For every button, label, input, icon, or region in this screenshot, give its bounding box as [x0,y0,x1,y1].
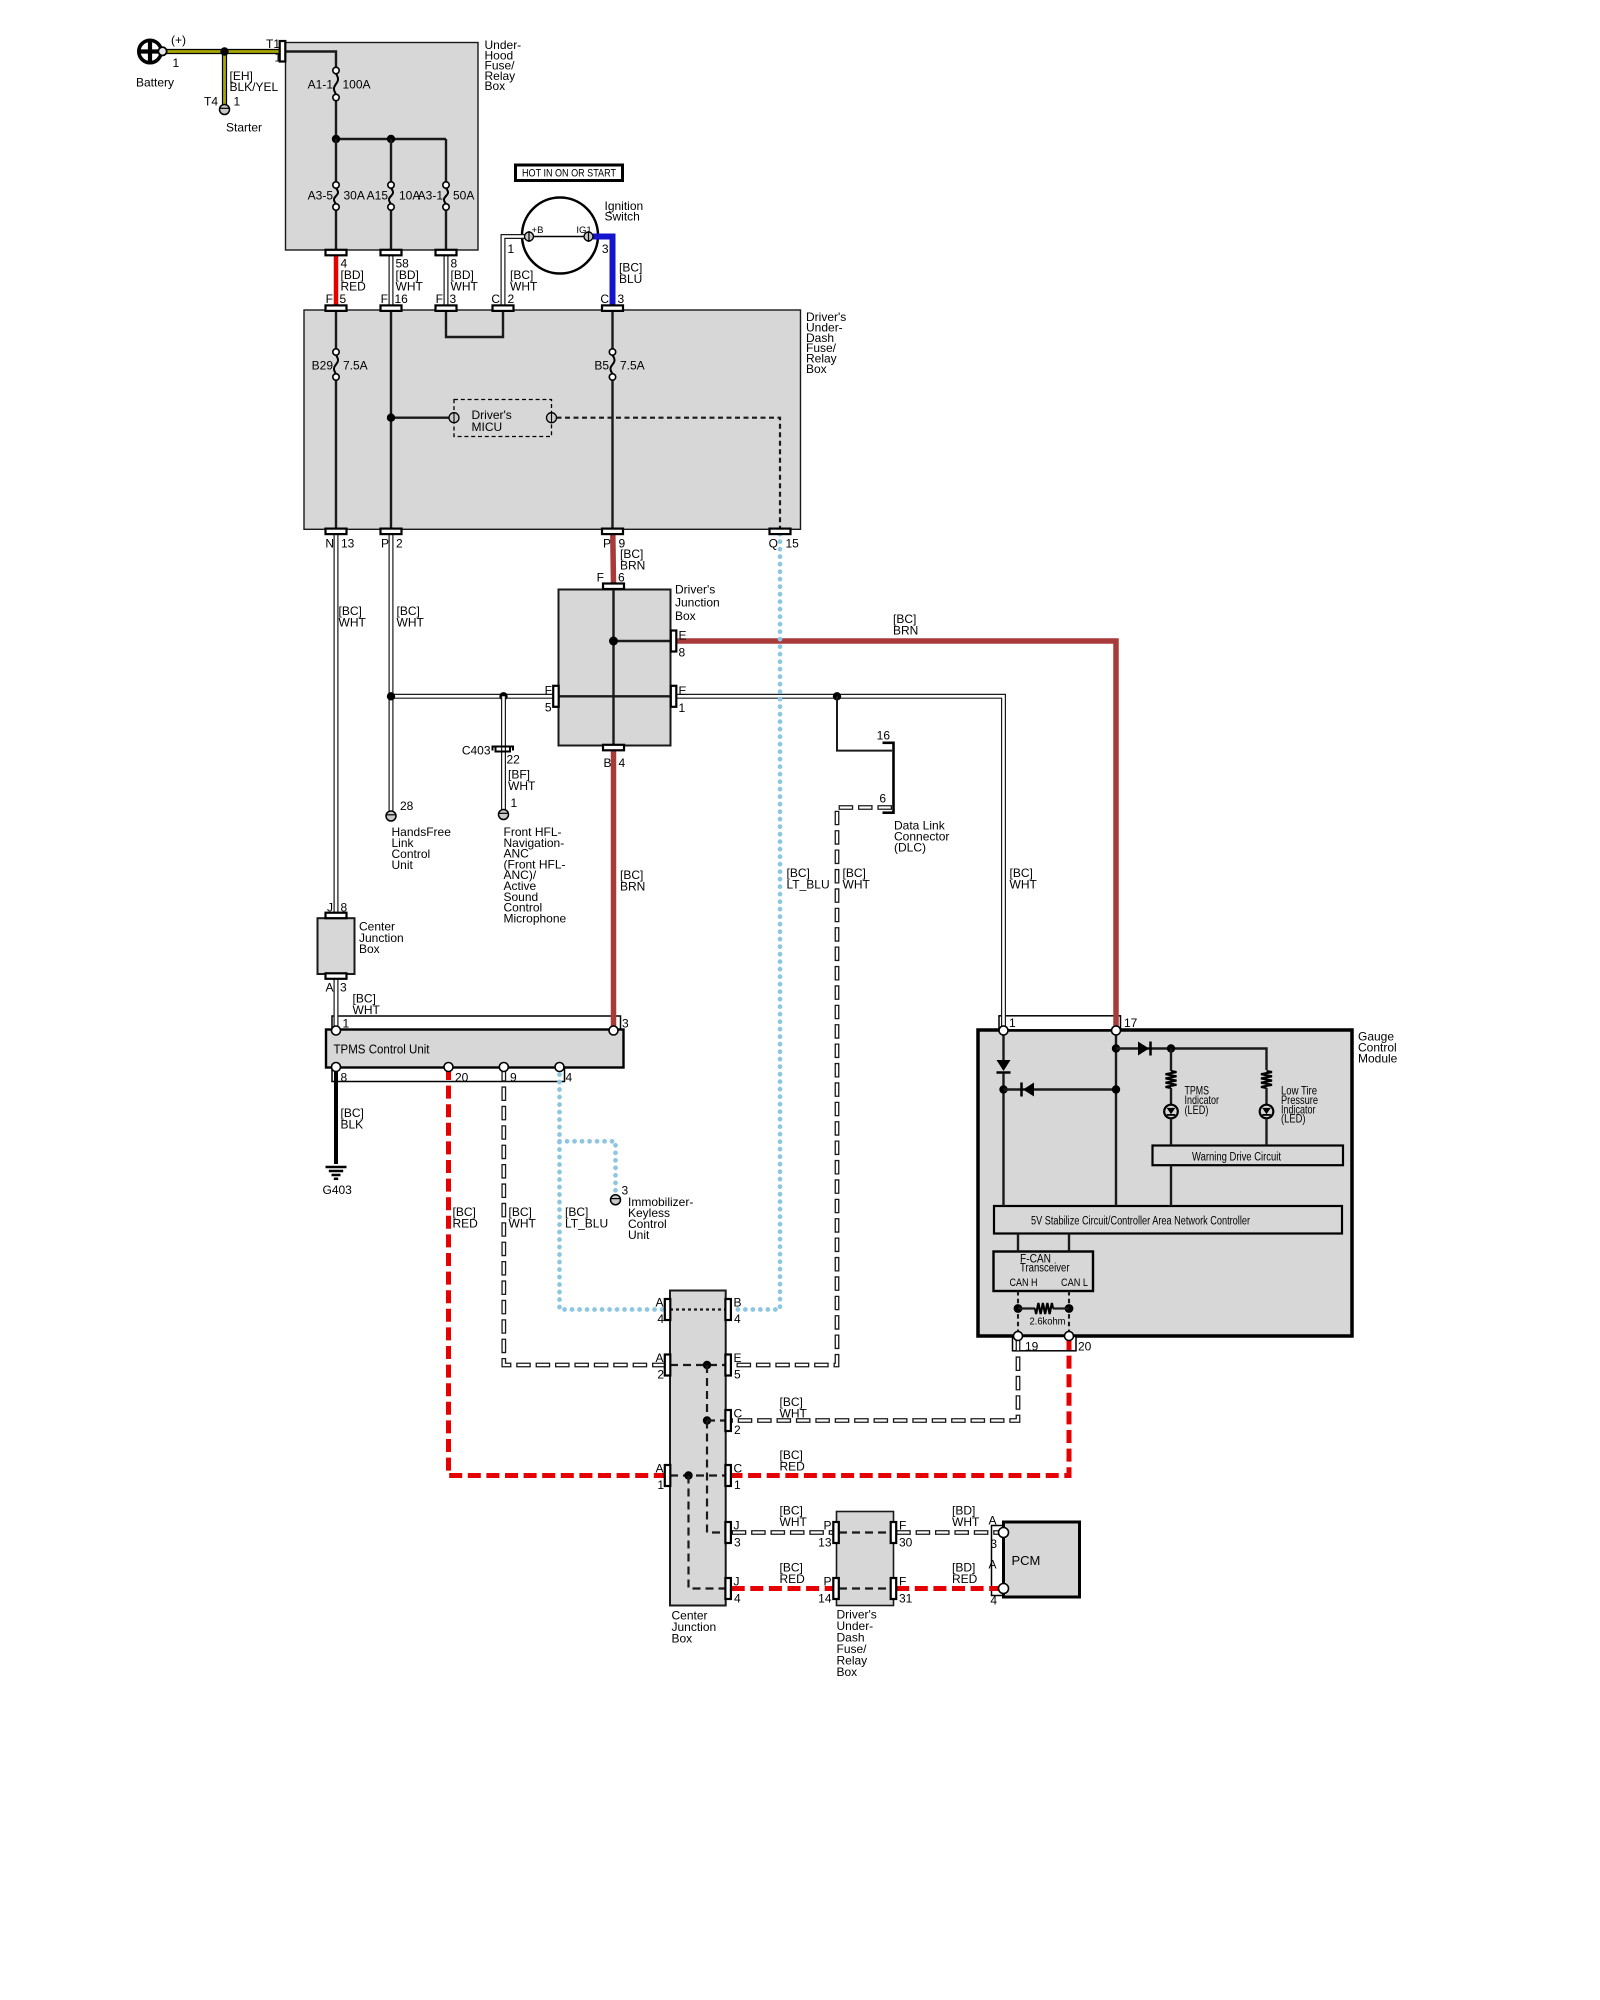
svg-text:A15: A15 [367,189,389,203]
svg-text:Box: Box [675,609,696,623]
svg-text:1: 1 [1009,1016,1016,1030]
connector F30 [891,1519,913,1550]
wire TPMS pin 8 to G403 [BC] BLK [334,1067,338,1164]
fuse A3-1 50A [418,182,475,210]
svg-text:4: 4 [619,756,626,770]
svg-text:50A: 50A [453,189,474,203]
label [BD] WHT (8) [451,268,479,294]
connector J4 (lower CJB) [725,1575,741,1606]
svg-text:4: 4 [734,1592,741,1606]
svg-text:Module: Module [1358,1052,1398,1066]
svg-text:(LED): (LED) [1281,1112,1306,1126]
wire P13 to F30 internal (dashed) [839,1531,891,1533]
svg-text:2: 2 [734,1423,741,1437]
label [BC] WHT (gauge pin1 wire) [1010,866,1038,892]
wire warning block to 5V block [1170,1165,1172,1206]
label [BC] BLK [341,1106,364,1132]
svg-text:Unit: Unit [628,1228,650,1242]
ignition switch contact [534,199,644,237]
svg-text:16: 16 [395,292,409,306]
svg-text:Transceiver: Transceiver [1020,1263,1070,1275]
label [BC] LT_BLU (Q15) [787,866,830,892]
svg-text:1: 1 [734,1478,741,1492]
svg-text:E: E [734,1351,742,1365]
label pin 3 (IG1 wire) [602,242,609,256]
junction DLC branch [833,692,841,700]
svg-text:F: F [381,292,388,306]
svg-text:B: B [604,756,612,770]
wire E5 node to C2 node (dashed) [706,1365,708,1421]
svg-text:LT_BLU: LT_BLU [787,878,830,892]
center junction box (lower) [670,1291,726,1646]
TPMS pin 4 [555,1063,573,1085]
svg-text:P: P [823,1519,831,1533]
wire fuse B5 to P9 [611,380,613,529]
label [BC] WHT (P2) [397,604,425,630]
wire pin 4 to F5 [BD] RED [334,255,339,305]
svg-text:1: 1 [508,242,515,256]
svg-text:1: 1 [343,1017,350,1031]
connector P13 [818,1519,839,1550]
svg-text:A: A [988,1558,996,1572]
wire bus to fuse A3-1 [445,139,447,182]
wire A3 to TPMS pin 1 [BC] WHT [334,979,339,1031]
wire gauge pin17 to 5V block [1115,1030,1117,1206]
svg-text:A: A [655,1296,663,1310]
svg-text:5: 5 [340,292,347,306]
label 2.6kohm [1030,1316,1066,1328]
wire battery to T1 [EH] BLK/YEL [166,49,281,54]
connector B4 (junction box) [603,745,626,770]
svg-text:P: P [603,537,611,551]
TPMS pin 1 [332,1017,350,1036]
wire F31 to PCM A4 [BD] RED [896,1586,999,1591]
svg-text:8: 8 [341,1071,348,1085]
5V stabilize/CAN controller block [994,1206,1342,1234]
gauge control module [978,1030,1398,1337]
svg-text:G403: G403 [323,1183,353,1197]
wire TPMS pin 9 to A2 [BC] WHT [504,1067,665,1365]
svg-text:7.5A: 7.5A [620,359,645,373]
svg-text:TPMS Control Unit: TPMS Control Unit [334,1043,430,1057]
diode D2 (pointing left) [1022,1083,1035,1097]
label pin 1 (+B wire) [508,242,515,256]
wire handsfree rail to F5 [BC] WHT [391,694,553,699]
svg-text:4: 4 [734,1312,741,1326]
warning drive circuit block [1153,1146,1344,1166]
label [BC] WHT (pin19-C2) [780,1395,808,1421]
junction A1/C1 node [684,1471,692,1479]
svg-text:3: 3 [734,1536,741,1550]
label [BC] RED (pin20-C1) [780,1448,806,1474]
TPMS control unit U1 [326,1016,624,1082]
MICU terminal right [547,413,557,423]
svg-text:P: P [381,537,389,551]
wire E8 to gauge pin 17 [BC] BRN [676,641,1116,1031]
junction CAN L / terminator [1065,1304,1074,1313]
wire pin 8 to F3 [BD] WHT [444,255,449,305]
wire 5V block to F-CAN CAN H [1017,1234,1019,1252]
svg-text:1: 1 [234,95,241,109]
wire A1 to C1 internal (dashed) [670,1474,726,1476]
immobilizer-keyless control unit terminal 3 [611,1184,694,1243]
svg-text:B: B [734,1296,742,1310]
wire bus to fuse A15 [390,139,392,182]
svg-text:J: J [327,901,333,915]
gauge pin 20 [1065,1332,1092,1354]
svg-text:F: F [545,684,552,698]
connector A3 [325,973,347,994]
svg-text:3: 3 [618,292,625,306]
connector F3 [436,292,457,311]
wire P9 to F6 [BC] BRN [610,534,616,583]
svg-text:3: 3 [602,242,609,256]
label [BD] WHT (F30-PCM) [952,1504,980,1530]
connector F6 [597,571,625,590]
svg-text:6: 6 [879,792,886,806]
wire C2 node to C2 (dashed) [707,1419,726,1421]
wire ignition +B to C2 [BC] WHT [503,237,525,306]
svg-text:C: C [734,1462,743,1476]
wire gauge pin 20 to C1 [BC] RED [732,1337,1069,1476]
svg-text:Box: Box [359,942,380,956]
PCM [1004,1522,1080,1597]
wire fuse B29 to N13 [335,380,337,529]
PCM pin A4 [988,1558,1008,1608]
svg-text:19: 19 [1025,1340,1039,1354]
diode D3 (pointing right) [1138,1042,1151,1056]
svg-text:C: C [600,292,609,306]
gauge module top connector strip [999,1016,1121,1030]
svg-text:RED: RED [780,1572,806,1586]
svg-text:1: 1 [275,51,282,65]
label [BC] BRN (E8) [893,612,918,638]
junction pin17 rail lower [1112,1085,1120,1093]
junction A2/E5 node [703,1361,711,1369]
connector P14 [818,1575,839,1606]
svg-text:1: 1 [657,1478,664,1492]
wire N13 to J8 [BC] WHT [334,534,339,913]
svg-text:Unit: Unit [392,858,414,872]
svg-text:J: J [734,1519,740,1533]
connector F31 [891,1575,913,1606]
junction F6/E8 node [609,637,618,646]
wire P14 to F31 internal (dashed) [839,1587,891,1589]
svg-text:1: 1 [173,56,180,70]
svg-text:HOT IN ON OR START: HOT IN ON OR START [522,167,616,179]
svg-text:3: 3 [450,292,457,306]
wire branch to starter [EH] BLK/YEL [222,52,227,105]
wire gauge pin 19 to C2 [BC] WHT [732,1337,1018,1421]
svg-text:WHT: WHT [780,1407,808,1421]
wire junction to E8 internal [614,640,671,642]
center junction box (upper) [318,918,404,974]
junction CAN H / terminator [1014,1304,1023,1313]
wire A1 node to J4 (dashed) [689,1476,726,1589]
svg-text:7.5A: 7.5A [343,359,368,373]
connector pin 4 (under-hood) [326,250,348,271]
wire terminator left [1018,1307,1035,1309]
connector B4 (lower CJB) [725,1296,741,1327]
wire F5 to E1 internal [559,695,671,697]
svg-text:30A: 30A [344,189,365,203]
LED2 low tire pressure indicator [1260,1105,1274,1119]
svg-text:6: 6 [618,571,625,585]
svg-text:PCM: PCM [1012,1553,1041,1568]
svg-text:E: E [679,684,687,698]
svg-text:20: 20 [455,1071,469,1085]
wire pin17 to indicators [1116,1049,1267,1071]
wire branch to immobilizer [BC] LT_BLU [560,1141,616,1195]
svg-text:WHT: WHT [843,878,871,892]
svg-text:WHT: WHT [509,1217,537,1231]
PCM pin A3 [988,1514,1008,1552]
svg-text:BRN: BRN [893,624,918,638]
svg-text:WHT: WHT [397,616,425,630]
svg-text:E: E [679,629,687,643]
connector J3 (lower CJB) [725,1519,741,1550]
svg-text:T1: T1 [266,37,280,51]
svg-text:17: 17 [1124,1016,1138,1030]
svg-text:3: 3 [340,981,347,995]
svg-text:CAN L: CAN L [1061,1277,1088,1289]
svg-text:8: 8 [341,901,348,915]
label [EH] BLK/YEL [230,69,279,94]
wire ignition IG1 to C3 [BC] BLU [593,237,613,306]
wire DLC pin 16 branch [837,696,892,750]
wire F6 to B4 internal [612,590,614,746]
svg-text:Box: Box [837,1665,858,1679]
connector P9 [602,529,626,551]
connector C2 (lower CJB) [725,1407,742,1438]
svg-text:30: 30 [899,1536,913,1550]
label [BD] RED (F31-PCM) [952,1561,978,1587]
svg-text:Switch: Switch [605,210,640,224]
svg-text:13: 13 [341,537,355,551]
svg-text:RED: RED [780,1460,806,1474]
fuse A1-1 100A [308,67,371,100]
svg-text:A: A [655,1462,663,1476]
wire branch to C403/HFL mic [501,696,506,810]
gauge pin 19 [1014,1332,1039,1354]
svg-text:Junction: Junction [675,596,720,610]
svg-text:MICU: MICU [472,420,503,434]
svg-text:WHT: WHT [1010,878,1038,892]
wire TPMS pin 4 to A4 [BC] LT_BLU [560,1067,665,1310]
connector A1 (lower CJB) [655,1462,670,1493]
svg-text:Driver's: Driver's [675,583,715,597]
label [BC] WHT (J3-P13) [780,1504,808,1530]
fuse B5 7.5A [594,349,644,380]
wire J3 to P13 [BC] WHT [732,1530,834,1535]
svg-text:BRN: BRN [620,880,645,894]
label [BD] WHT (58) [396,268,424,294]
wire R1 to LED1 [1170,1088,1172,1105]
connector P2 [381,529,404,551]
connector F5 (junction box) [545,684,559,715]
svg-text:WHT: WHT [353,1003,381,1017]
wire F5 to fuse B29 [335,310,337,349]
data link connector (DLC) [877,729,950,855]
junction battery/starter [220,47,228,55]
label [BC] BLU [619,261,642,287]
svg-text:4: 4 [566,1071,573,1085]
svg-text:B5: B5 [594,359,609,373]
svg-text:IG1: IG1 [576,225,591,236]
wire C3 to fuse B5 [611,310,613,349]
svg-text:(+): (+) [171,33,186,47]
svg-text:2: 2 [396,537,403,551]
label [BC] WHT (DLC) [843,866,871,892]
svg-text:4: 4 [657,1312,664,1326]
wire CAN H to pin 19 (dashed) [1017,1291,1019,1337]
svg-text:14: 14 [818,1592,832,1606]
wire MICU to Q15 (dashed) [557,418,781,529]
label [BC] WHT (N13) [339,604,367,630]
wire LED1 to warning block [1170,1118,1172,1145]
wire to TPMS indicator resistor [1170,1049,1172,1072]
svg-text:1: 1 [511,796,518,810]
svg-text:B29: B29 [312,359,334,373]
TPMS pin 8 [332,1063,348,1085]
connector C1 (lower CJB) [725,1462,742,1493]
wire bus to fuse A3-5 [335,139,337,182]
connector F5 [326,292,347,311]
wire fuse A1-1 to bus [335,101,337,139]
svg-text:1: 1 [679,701,686,715]
svg-text:F: F [597,571,604,585]
wire terminator right [1053,1307,1069,1309]
svg-text:BLU: BLU [619,272,642,286]
svg-text:15: 15 [786,537,800,551]
PCM connector strip [992,1526,1004,1596]
label [BC] WHT (A3) [353,992,381,1018]
svg-text:BLK/YEL: BLK/YEL [230,80,279,94]
svg-text:Warning Drive Circuit: Warning Drive Circuit [1192,1152,1282,1164]
junction P2/F5 rail [387,692,395,700]
connector E5 (lower CJB) [725,1351,741,1382]
connector C2 [491,292,514,311]
svg-text:P: P [823,1575,831,1589]
connector Q15 [769,529,800,551]
svg-text:F: F [326,292,333,306]
wire TPMS pin 20 to A1 [BC] RED [449,1067,665,1476]
svg-text:9: 9 [619,537,626,551]
wire DLC pin 6 [BC] WHT (dashed) [732,808,892,1366]
connector E8 [671,629,687,660]
label [BC] WHT (ignition) [510,268,538,294]
handsfree link control unit terminal 28 [386,799,451,872]
wire A2 to E5 internal (dashed) [670,1364,726,1366]
wire R2 to LED2 [1265,1088,1267,1105]
svg-text:C: C [734,1407,743,1421]
svg-text:4: 4 [990,1594,997,1608]
svg-text:WHT: WHT [339,616,367,630]
gauge pin 17 [1112,1016,1138,1035]
svg-text:5: 5 [734,1368,741,1382]
svg-text:22: 22 [507,753,521,767]
svg-text:100A: 100A [343,78,371,92]
driver's junction box [559,583,720,746]
connector J8 [326,901,348,919]
svg-text:9: 9 [510,1071,517,1085]
svg-text:3: 3 [990,1537,997,1551]
svg-text:31: 31 [899,1592,913,1606]
starter terminal T4 [204,95,262,135]
connector A2 (lower CJB) [655,1351,670,1382]
wire A4 to B4 internal (dotted) [670,1308,726,1310]
svg-text:28: 28 [400,799,414,813]
svg-text:Battery: Battery [136,76,174,90]
LED1 TPMS indicator [1164,1105,1178,1119]
svg-text:13: 13 [818,1536,832,1550]
svg-text:Box: Box [485,79,506,93]
ignition switch body [522,198,598,274]
connector pin 58 (under-hood) [381,250,410,271]
label [BC] RED (J4-P14) [780,1561,806,1587]
svg-text:2: 2 [508,292,515,306]
battery [136,33,186,90]
connector N13 [325,529,354,551]
under-hood fuse/relay box [286,38,522,250]
junction bus node 2 [387,135,395,143]
junction MICU/P2 rail [387,414,395,422]
wire P2 to handsfree unit [BC] WHT [389,534,394,810]
junction bus node 1 [332,135,340,143]
resistor R1 (TPMS indicator) [1166,1071,1177,1088]
svg-text:A3-5: A3-5 [308,189,334,203]
svg-text:20: 20 [1078,1340,1092,1354]
TPMS pin 3 [609,1017,629,1036]
ground G403 [323,1167,353,1197]
svg-text:A: A [325,981,333,995]
svg-text:16: 16 [877,729,891,743]
fuse A15 10A [367,182,421,210]
junction TPMS indicator branch [1167,1044,1175,1052]
connector C3 [600,292,624,311]
svg-text:F: F [899,1575,906,1589]
wire LED2 to warning block [1265,1118,1267,1145]
svg-text:Starter: Starter [226,121,262,135]
wire 5V block to F-CAN CAN L [1068,1234,1070,1252]
F-CAN transceiver block [994,1252,1094,1292]
resistor R2 (low tire indicator) [1261,1071,1272,1088]
svg-text:3: 3 [622,1017,629,1031]
svg-text:LT_BLU: LT_BLU [565,1217,608,1231]
bus in under-hood box [336,138,446,140]
svg-text:A3-1: A3-1 [418,189,444,203]
svg-text:(LED): (LED) [1185,1103,1209,1117]
resistor R3 2.6kohm terminator [1035,1303,1053,1314]
wire D1 to 5V block [1002,1073,1004,1206]
connector F16 [381,292,409,311]
front HFL-ANC microphone terminal 1 [499,796,567,925]
svg-text:8: 8 [679,646,686,660]
label TPMS Indicator (LED) [1185,1084,1220,1117]
fuse B29 7.5A [312,349,368,380]
wire E1 to gauge pin 1 [BC] WHT [676,696,1003,1031]
wire CAN L to pin 20 (dashed) [1068,1291,1070,1337]
label [BF] WHT [508,768,536,794]
svg-text:C: C [491,292,500,306]
label HOT IN ON OR START [516,165,623,181]
wire F3 to C2 internal [446,310,503,337]
gauge module bottom connector strip [1013,1337,1077,1351]
svg-text:J: J [734,1575,740,1589]
label [BC] RED (pin20) [453,1205,479,1231]
wire F30 to PCM A3 [BD] WHT [896,1530,999,1535]
driver's under-dash fuse/relay box [304,310,846,529]
